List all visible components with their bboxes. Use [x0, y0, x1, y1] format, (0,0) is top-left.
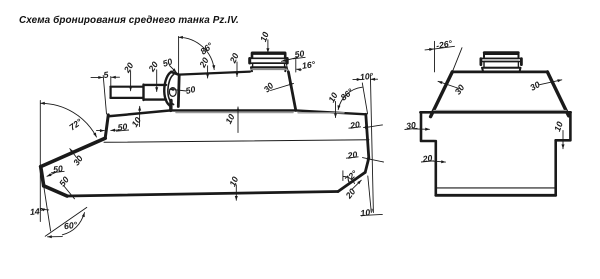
dim 20 rear lower plate [353, 180, 362, 189]
86 deg arc [179, 37, 215, 69]
svg-text:86°: 86° [339, 86, 356, 102]
svg-text:20: 20 [227, 51, 241, 65]
svg-text:50: 50 [161, 56, 173, 69]
dim 50 mantlet center [170, 89, 187, 91]
gun mantlet [164, 72, 171, 107]
svg-text:20: 20 [146, 60, 160, 75]
dim 20 barrel [130, 71, 132, 91]
commander cupola (front view) [481, 53, 522, 71]
lower nose plate [44, 186, 67, 196]
hull inner bottom line [436, 187, 556, 189]
front vertical plate [41, 167, 44, 186]
dim 10 engine deck [335, 102, 337, 118]
dim 10 cupola top [267, 40, 269, 53]
dim 50 front plate arrows [97, 130, 105, 132]
10 deg rear top: plate extension [362, 83, 367, 114]
turret front edge [177, 75, 181, 107]
dim 20 rear mid [363, 158, 372, 160]
svg-text:10°: 10° [360, 207, 375, 219]
dim 50 mantlet top [170, 66, 177, 73]
-26 deg: slope extension [452, 48, 462, 72]
hull bottom [436, 194, 556, 197]
72 deg front: vertical ref [39, 101, 41, 222]
turret rear plate [288, 72, 295, 111]
svg-text:20: 20 [197, 56, 211, 70]
dim 30 right slope [539, 80, 562, 85]
72 deg front arc [41, 103, 97, 137]
svg-text:5: 5 [103, 69, 109, 80]
dim 50 front vert plate [47, 173, 56, 177]
sponson line [104, 140, 369, 143]
10 deg bottom: refs [368, 176, 372, 213]
svg-text:50: 50 [53, 163, 64, 174]
rear lower plate [338, 172, 365, 191]
-26 deg underline [435, 46, 455, 49]
dim 30 left slope [438, 81, 459, 88]
svg-text:50: 50 [57, 174, 71, 188]
dim 50 nose leader [64, 186, 75, 199]
dim 30 turret rear plate [271, 83, 294, 90]
svg-text:20: 20 [421, 153, 433, 164]
turret left slope [431, 72, 453, 117]
dim 20 roof front [207, 66, 209, 78]
60 deg: baseline [48, 236, 63, 238]
dim 50 cupola side [282, 58, 298, 62]
86 deg turret front: vertical ref [178, 36, 180, 73]
hull floor [67, 192, 338, 197]
svg-text:20: 20 [121, 61, 135, 76]
svg-text:14°: 14° [30, 206, 44, 217]
60 deg arc [62, 213, 84, 235]
title [19, 15, 239, 26]
dim 20 recuperator [156, 70, 158, 92]
16 deg turret rear: vertical ref + ext [286, 60, 296, 73]
svg-text:30: 30 [528, 79, 542, 93]
glacis plate [41, 138, 106, 166]
svg-text:10: 10 [326, 91, 339, 104]
turret roof [179, 72, 250, 75]
svg-text:72°: 72° [343, 168, 360, 185]
14 deg: tilted line [44, 186, 51, 231]
svg-text:10: 10 [258, 30, 271, 43]
hull top line under turret / engine deck [171, 110, 366, 114]
svg-text:30: 30 [71, 154, 85, 168]
dim 10 roof front [139, 106, 141, 126]
svg-text:20: 20 [346, 149, 358, 161]
-26 deg: vertical ref [434, 41, 436, 72]
86 deg rear arc [338, 87, 362, 110]
turret ring shadow [434, 110, 566, 112]
commander cupola (side view) [250, 53, 288, 71]
10 deg arrows [353, 78, 361, 80]
60 deg ray [45, 207, 87, 236]
barrel step joint [144, 85, 167, 100]
dim 10 floor [235, 185, 237, 201]
svg-text:10: 10 [129, 115, 143, 129]
rear hull plate [365, 114, 369, 172]
superstructure front plate [105, 115, 108, 138]
svg-text:-26°: -26° [435, 38, 453, 51]
turret base shadow [176, 112, 293, 114]
svg-text:30: 30 [262, 80, 276, 94]
svg-text:20: 20 [348, 119, 360, 131]
gun barrel tube [110, 87, 143, 98]
dim 30 hull side [414, 128, 430, 130]
dim 10 hull top [237, 107, 239, 133]
svg-text:30: 30 [453, 83, 467, 97]
label underlines [51, 57, 434, 173]
svg-text:60°: 60° [63, 220, 78, 232]
14 deg arc [40, 209, 48, 210]
72 deg rear: vertical ref + arc [342, 171, 344, 181]
superstructure roof line [109, 110, 171, 116]
dim 20 lower hull [429, 161, 446, 162]
turret top plate [452, 71, 547, 74]
turret right slope [547, 72, 568, 116]
dim 20 rear upper [364, 126, 370, 129]
dim 30 glacis tick [70, 149, 77, 158]
svg-text:86°: 86° [198, 40, 215, 56]
dim 20 roof rear [236, 62, 238, 77]
svg-text:10: 10 [227, 175, 240, 188]
svg-text:16°: 16° [301, 59, 316, 71]
svg-text:10: 10 [223, 112, 236, 125]
hull lower box [434, 141, 437, 195]
10 deg rear top: vertical ref [370, 75, 373, 212]
svg-text:20: 20 [343, 186, 358, 201]
dim 10 side step [562, 131, 564, 149]
svg-text:50: 50 [185, 84, 197, 96]
hull upper box [420, 111, 570, 114]
svg-text:10°: 10° [359, 71, 374, 82]
dim 5 (muzzle) [103, 76, 106, 115]
